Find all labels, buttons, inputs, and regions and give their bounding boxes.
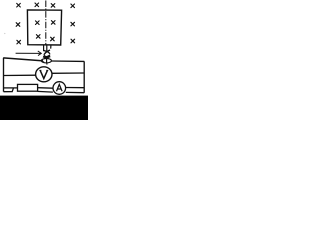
speck bbox=[4, 33, 5, 34]
wire (bottom rail left) bbox=[4, 88, 14, 92]
wire (circuit top, right of plug) bbox=[51, 60, 84, 62]
twisted leads bbox=[43, 50, 50, 58]
field symbol x row3 col1 bbox=[17, 40, 21, 44]
resistor R bbox=[18, 84, 38, 91]
field symbol x row1 col3 bbox=[51, 4, 55, 8]
wire (circuit left side) bbox=[3, 58, 5, 92]
wire (bottom rail centre) bbox=[38, 90, 53, 93]
field symbol x row3 col4 bbox=[71, 39, 75, 43]
ammeter A bbox=[53, 82, 66, 95]
loop frame bbox=[27, 10, 61, 45]
axis line (dash-dot) bbox=[45, 1, 47, 45]
wire (circuit top, left of plug) bbox=[3, 58, 42, 61]
field symbol x row3 col2 bbox=[36, 35, 40, 39]
lead wire right bbox=[46, 45, 48, 52]
wire (resistor branch left) bbox=[4, 87, 18, 89]
field symbol x row1 col4 bbox=[71, 4, 75, 8]
lead wire stub bbox=[50, 45, 52, 48]
wire (bottom rail right) bbox=[66, 91, 84, 93]
field symbol x row2 col4 bbox=[71, 22, 75, 26]
field symbol x row1 col1 bbox=[17, 3, 21, 7]
wire (circuit right side) bbox=[83, 61, 85, 92]
wire (voltmeter branch right) bbox=[52, 72, 84, 74]
wire (resistor to ammeter) bbox=[38, 87, 54, 90]
field symbol x row2 col1 bbox=[16, 23, 20, 27]
field symbol x row2 col3 bbox=[51, 21, 55, 25]
field symbol x row3 col3 bbox=[51, 37, 55, 41]
lead wire left bbox=[43, 45, 45, 51]
black band bbox=[0, 96, 88, 120]
plug (connector ellipse) bbox=[41, 58, 51, 65]
field symbol x row2 col2 bbox=[36, 21, 40, 25]
wire (voltmeter branch left) bbox=[4, 74, 37, 76]
wire (ammeter to right side) bbox=[66, 87, 85, 89]
field symbol x row1 col2 bbox=[35, 3, 39, 7]
voltmeter V bbox=[36, 67, 52, 82]
arrow to leads bbox=[16, 51, 42, 56]
